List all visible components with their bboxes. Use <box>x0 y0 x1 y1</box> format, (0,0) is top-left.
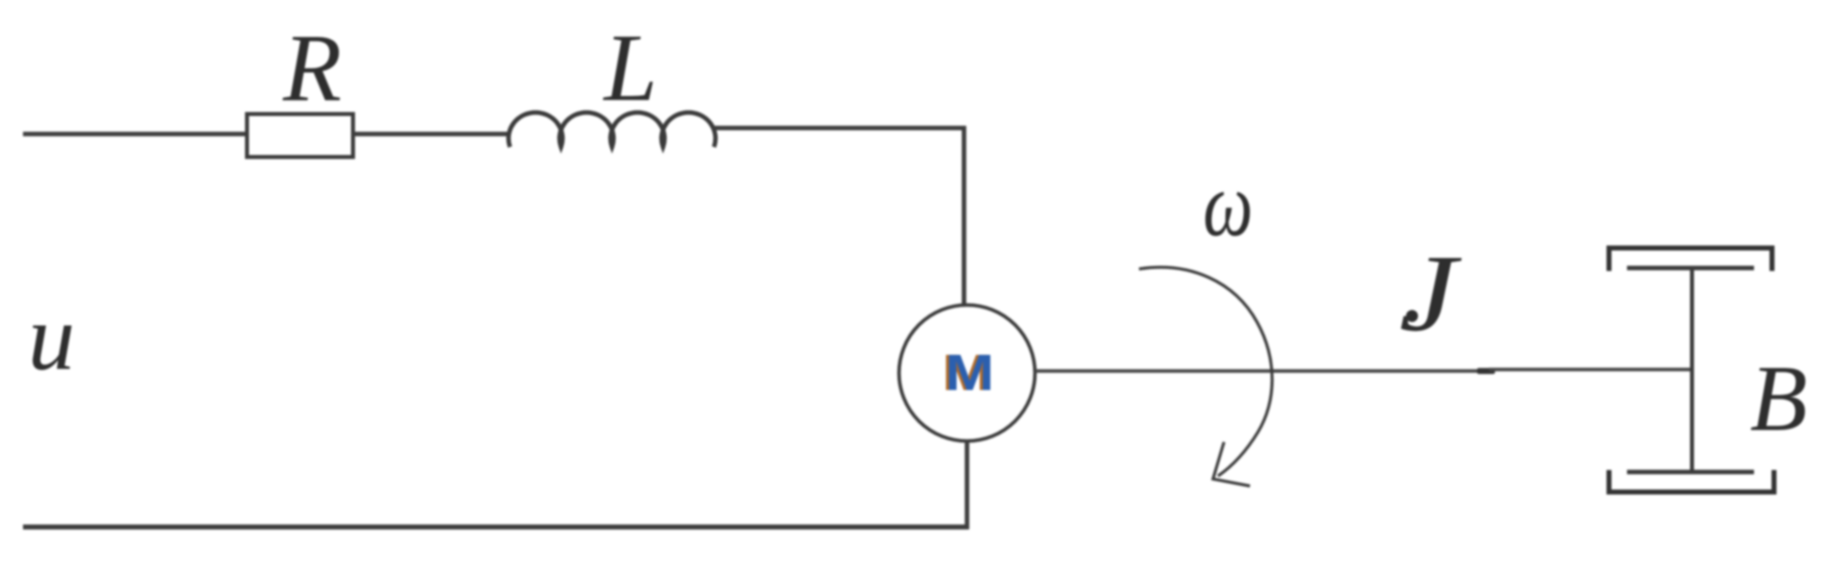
label R <box>282 14 342 121</box>
shaft right segment <box>1489 368 1693 372</box>
motor M letter <box>942 344 994 401</box>
bearing top T-bar <box>1627 266 1754 271</box>
wire corner-down-to-motor <box>962 126 967 306</box>
wire resistor-to-inductor <box>353 132 510 137</box>
label u <box>28 286 75 390</box>
wire bottom <box>23 525 969 530</box>
wire motor-bottom <box>965 440 970 529</box>
svg-text:M: M <box>945 344 994 401</box>
svg-text:R: R <box>282 14 342 121</box>
svg-text:J: J <box>1399 233 1463 355</box>
label B <box>1750 347 1807 451</box>
motor M circle <box>899 305 1035 441</box>
resistor R <box>247 114 353 157</box>
bearing shaft vertical line <box>1690 266 1694 473</box>
bearing bottom T-bar <box>1627 470 1754 475</box>
label J <box>1399 233 1463 355</box>
wire inductor-to-corner <box>714 126 966 131</box>
svg-text:ω: ω <box>1203 153 1253 255</box>
bearing bottom bracket <box>1609 470 1774 492</box>
label omega <box>1203 153 1253 255</box>
inductor L <box>509 112 716 147</box>
svg-text:u: u <box>28 286 75 390</box>
svg-text:B: B <box>1750 347 1807 451</box>
wire top-left segment <box>23 132 248 137</box>
bearing top bracket <box>1609 248 1772 271</box>
label L <box>602 14 657 121</box>
rotation arc <box>1139 267 1272 476</box>
shaft junction blob <box>1477 368 1495 374</box>
shaft left segment <box>1035 369 1492 373</box>
rotation arrowhead <box>1213 442 1250 486</box>
svg-text:L: L <box>602 14 657 121</box>
